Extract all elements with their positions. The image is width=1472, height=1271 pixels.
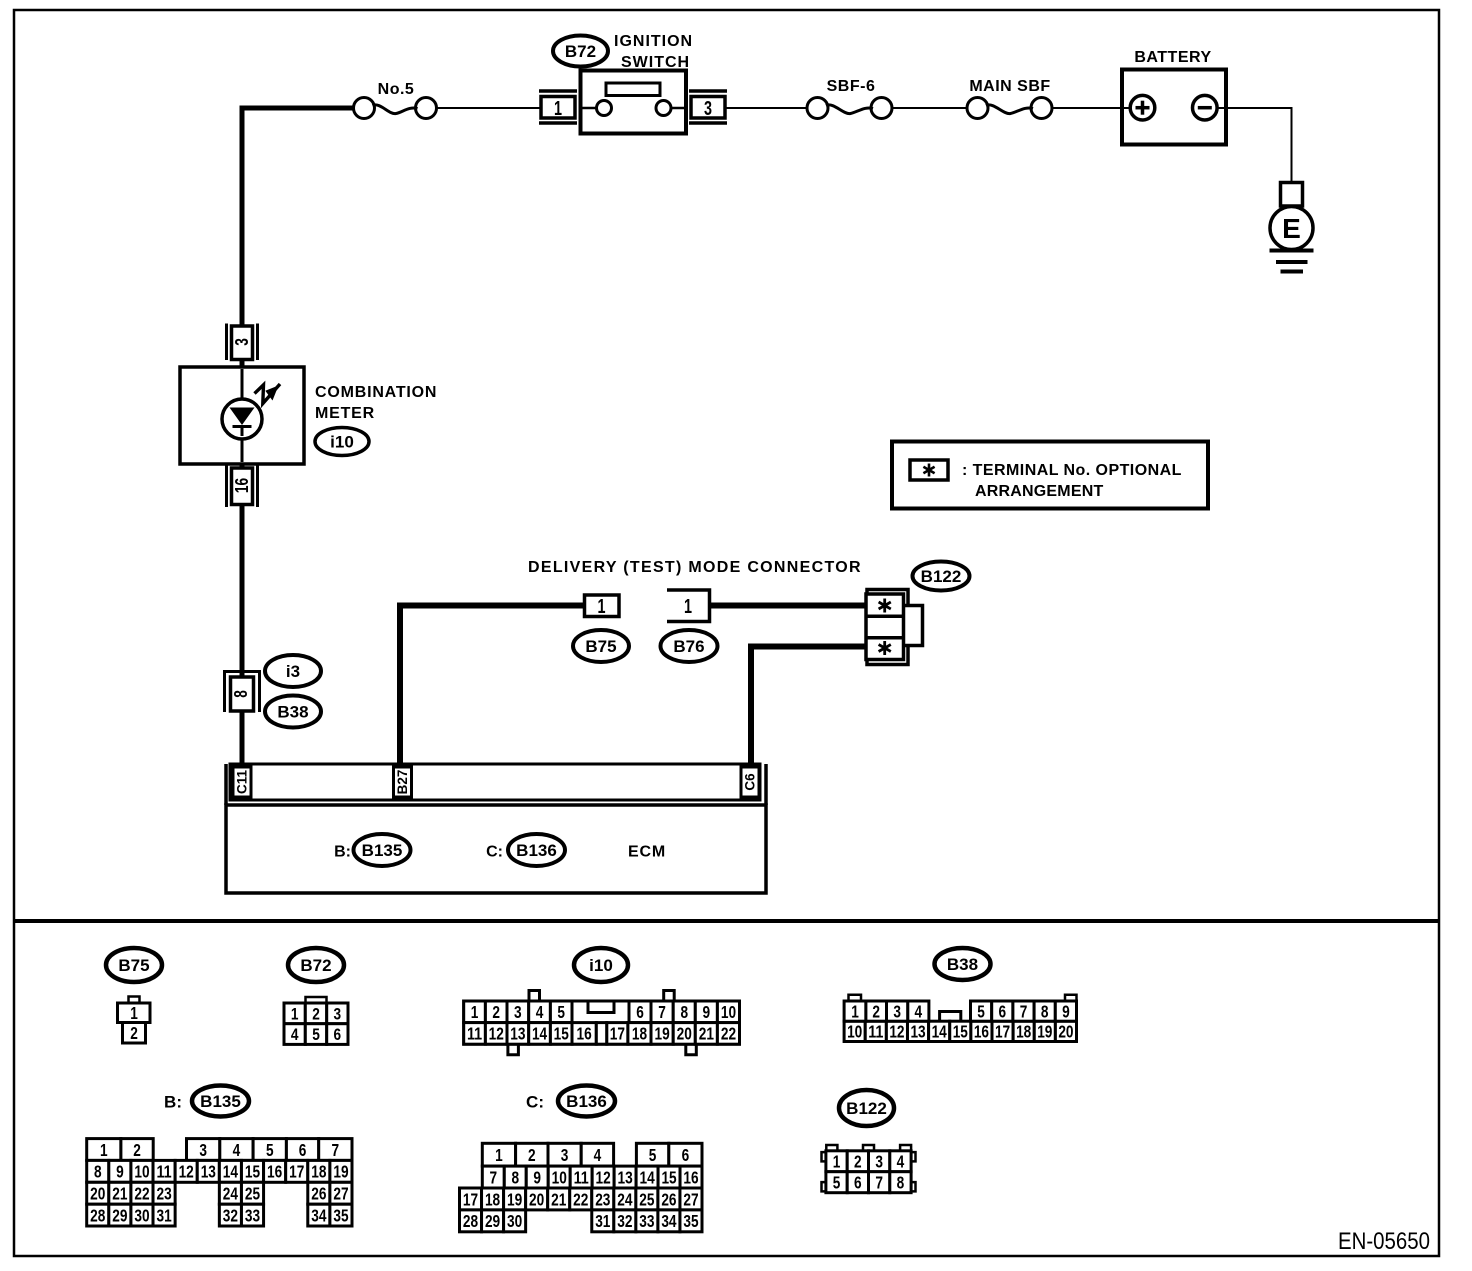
svg-text:9: 9 bbox=[1062, 1001, 1070, 1021]
svg-text:B72: B72 bbox=[300, 956, 331, 975]
svg-text:33: 33 bbox=[245, 1205, 260, 1225]
oval label B76 (schematic) bbox=[661, 630, 718, 662]
svg-text:1: 1 bbox=[100, 1140, 108, 1160]
svg-text:14: 14 bbox=[532, 1024, 547, 1044]
svg-text:12: 12 bbox=[596, 1167, 611, 1187]
svg-text:11: 11 bbox=[574, 1167, 589, 1187]
svg-text:7: 7 bbox=[658, 1002, 666, 1022]
svg-text:13: 13 bbox=[618, 1167, 633, 1187]
svg-text:13: 13 bbox=[201, 1162, 216, 1182]
svg-text:1: 1 bbox=[291, 1004, 299, 1023]
svg-text:31: 31 bbox=[156, 1205, 171, 1225]
svg-text:8: 8 bbox=[680, 1002, 688, 1022]
svg-text:i3: i3 bbox=[286, 662, 300, 681]
svg-text:20: 20 bbox=[529, 1189, 544, 1209]
svg-text:17: 17 bbox=[463, 1189, 478, 1209]
svg-text:1: 1 bbox=[833, 1152, 841, 1172]
ECM terminal C11 bbox=[233, 767, 251, 797]
svg-text:B:: B: bbox=[334, 844, 351, 861]
connector terminal 3 (combination meter i10) bbox=[227, 324, 258, 361]
svg-text:12: 12 bbox=[889, 1022, 904, 1042]
combination meter box bbox=[180, 367, 304, 464]
svg-text:B75: B75 bbox=[118, 956, 149, 975]
svg-text:16: 16 bbox=[577, 1024, 592, 1044]
svg-text:23: 23 bbox=[595, 1189, 610, 1209]
svg-text:16: 16 bbox=[267, 1162, 282, 1182]
connector terminal 1 (ignition switch, B72) bbox=[539, 91, 577, 123]
svg-text:2: 2 bbox=[528, 1145, 536, 1165]
svg-text:7: 7 bbox=[332, 1140, 340, 1160]
label DELIVERY (TEST) MODE CONNECTOR bbox=[528, 559, 862, 576]
svg-text:3: 3 bbox=[875, 1152, 883, 1172]
svg-text:2: 2 bbox=[312, 1004, 320, 1023]
svg-text:3: 3 bbox=[334, 1004, 342, 1023]
svg-text:B27: B27 bbox=[395, 770, 410, 795]
svg-text:4: 4 bbox=[536, 1002, 544, 1022]
svg-text:1: 1 bbox=[684, 596, 692, 618]
label C: with oval B136 (ECM) bbox=[486, 834, 565, 866]
svg-text:20: 20 bbox=[90, 1184, 105, 1204]
svg-text:16: 16 bbox=[683, 1167, 698, 1187]
svg-text:32: 32 bbox=[223, 1205, 238, 1225]
svg-text:18: 18 bbox=[311, 1162, 326, 1182]
svg-text:28: 28 bbox=[90, 1205, 105, 1225]
svg-text:17: 17 bbox=[995, 1022, 1010, 1042]
label COMBINATION METER bbox=[315, 384, 437, 422]
legend: terminal no. optional arrangement bbox=[892, 442, 1208, 509]
svg-text:MAIN SBF: MAIN SBF bbox=[969, 78, 1050, 95]
svg-text:6: 6 bbox=[999, 1001, 1007, 1021]
oval label B75 (pinout) bbox=[106, 948, 162, 982]
svg-text:23: 23 bbox=[156, 1184, 171, 1204]
svg-text:34: 34 bbox=[311, 1205, 326, 1225]
svg-text:1: 1 bbox=[130, 1003, 138, 1023]
ECM terminal C6 bbox=[741, 767, 759, 797]
svg-text:B38: B38 bbox=[277, 702, 308, 721]
svg-text:25: 25 bbox=[639, 1189, 654, 1209]
svg-text:2: 2 bbox=[872, 1001, 880, 1021]
svg-text:33: 33 bbox=[639, 1211, 654, 1231]
svg-text:8: 8 bbox=[94, 1162, 102, 1182]
svg-text:4: 4 bbox=[594, 1145, 602, 1165]
wire: connector B76 to delivery connector B122 pin * bbox=[710, 603, 867, 609]
svg-text:18: 18 bbox=[485, 1189, 500, 1209]
wire: fuse No.5 to ignition switch terminal 1 bbox=[437, 107, 541, 109]
connector terminal 3 (ignition switch, B72) bbox=[689, 91, 727, 123]
svg-text:20: 20 bbox=[677, 1024, 692, 1044]
svg-text:B135: B135 bbox=[362, 841, 403, 860]
label IGNITION SWITCH bbox=[614, 33, 693, 71]
connector B75 pinout (pins 1,2) bbox=[118, 997, 151, 1044]
svg-text:2: 2 bbox=[133, 1140, 141, 1160]
connector B122 pinout (pins 1-8) bbox=[822, 1145, 916, 1193]
svg-text:7: 7 bbox=[875, 1173, 883, 1193]
svg-text:6: 6 bbox=[334, 1025, 342, 1044]
svg-text:BATTERY: BATTERY bbox=[1134, 49, 1211, 66]
svg-text:11: 11 bbox=[868, 1022, 883, 1042]
svg-text:16: 16 bbox=[232, 478, 252, 493]
ground E bbox=[1270, 183, 1314, 272]
svg-text:35: 35 bbox=[683, 1211, 698, 1231]
svg-text:5: 5 bbox=[833, 1173, 841, 1193]
svg-text:17: 17 bbox=[610, 1024, 625, 1044]
wire: MAIN SBF to battery positive bbox=[1052, 107, 1131, 109]
svg-text:7: 7 bbox=[489, 1167, 497, 1187]
svg-text:5: 5 bbox=[266, 1140, 274, 1160]
svg-text:E: E bbox=[1282, 213, 1301, 244]
wire: delivery connector B122 lower * down to ECM C6 bbox=[751, 647, 867, 766]
oval label B72 (schematic) bbox=[553, 36, 608, 67]
svg-text:11: 11 bbox=[156, 1162, 171, 1182]
svg-text:IGNITION: IGNITION bbox=[614, 33, 693, 50]
pin * (upper) of B122 bbox=[879, 599, 891, 613]
svg-text:5: 5 bbox=[557, 1002, 565, 1022]
svg-text:4: 4 bbox=[233, 1140, 241, 1160]
svg-text:C:: C: bbox=[526, 1093, 544, 1112]
svg-text:29: 29 bbox=[485, 1211, 500, 1231]
connector B135 pinout (pins 1-35) bbox=[87, 1139, 352, 1226]
svg-text:6: 6 bbox=[299, 1140, 307, 1160]
svg-text:1: 1 bbox=[471, 1002, 479, 1022]
ECM terminal B27 bbox=[394, 767, 412, 797]
svg-text:24: 24 bbox=[223, 1184, 238, 1204]
connector terminal 16 (combination meter i10) bbox=[227, 465, 258, 507]
svg-text:B76: B76 bbox=[673, 637, 704, 656]
svg-text:27: 27 bbox=[683, 1189, 698, 1209]
svg-text:12: 12 bbox=[179, 1162, 194, 1182]
svg-text:28: 28 bbox=[463, 1211, 478, 1231]
svg-text:5: 5 bbox=[649, 1145, 657, 1165]
svg-text:19: 19 bbox=[1037, 1022, 1052, 1042]
svg-text:3: 3 bbox=[232, 338, 252, 346]
svg-text:ARRANGEMENT: ARRANGEMENT bbox=[975, 483, 1103, 500]
svg-text:12: 12 bbox=[489, 1024, 504, 1044]
svg-text:19: 19 bbox=[333, 1162, 348, 1182]
ECM terminal strip bbox=[230, 764, 760, 800]
svg-text:30: 30 bbox=[134, 1205, 149, 1225]
svg-text:25: 25 bbox=[245, 1184, 260, 1204]
battery bbox=[1120, 49, 1228, 145]
svg-text:7: 7 bbox=[1020, 1001, 1028, 1021]
svg-text:9: 9 bbox=[533, 1167, 541, 1187]
svg-text:10: 10 bbox=[847, 1022, 862, 1042]
svg-text:32: 32 bbox=[617, 1211, 632, 1231]
oval label i10 (pinout) bbox=[574, 948, 628, 982]
connector B75 terminal 1 bbox=[585, 595, 620, 618]
svg-text:15: 15 bbox=[661, 1167, 676, 1187]
indicator lamp (LED) inside combination meter bbox=[222, 399, 262, 439]
svg-text:ECM: ECM bbox=[628, 844, 666, 861]
svg-text:4: 4 bbox=[291, 1025, 299, 1044]
connector B136 pinout (pins 1-35) bbox=[460, 1143, 703, 1232]
figure number EN-05650 bbox=[1338, 1228, 1430, 1255]
ignition switch B72 bbox=[581, 71, 687, 134]
svg-text:B122: B122 bbox=[846, 1099, 887, 1118]
svg-text:22: 22 bbox=[721, 1024, 736, 1044]
svg-text:15: 15 bbox=[554, 1024, 569, 1044]
svg-text:19: 19 bbox=[655, 1024, 670, 1044]
svg-text:DELIVERY (TEST) MODE CONNECTOR: DELIVERY (TEST) MODE CONNECTOR bbox=[528, 559, 862, 576]
svg-text:2: 2 bbox=[130, 1023, 138, 1043]
svg-text:SBF-6: SBF-6 bbox=[827, 78, 876, 95]
svg-text:B72: B72 bbox=[565, 42, 596, 61]
wire: ECM B27 up and right to connector B75 bbox=[400, 606, 584, 766]
oval label B75 (schematic) bbox=[573, 630, 629, 662]
svg-text:9: 9 bbox=[703, 1002, 711, 1022]
svg-text:1: 1 bbox=[851, 1001, 859, 1021]
divider line between schematic and connector views bbox=[13, 919, 1440, 923]
svg-text:1: 1 bbox=[495, 1145, 503, 1165]
svg-text:26: 26 bbox=[661, 1189, 676, 1209]
svg-text:10: 10 bbox=[721, 1002, 736, 1022]
svg-text:11: 11 bbox=[467, 1024, 482, 1044]
light emission arrow of lamp bbox=[255, 384, 281, 404]
svg-text:5: 5 bbox=[312, 1025, 320, 1044]
connector terminal 8 (i3 / B38) bbox=[223, 670, 261, 712]
svg-text:20: 20 bbox=[1058, 1022, 1073, 1042]
svg-text:4: 4 bbox=[897, 1152, 905, 1172]
label B: with oval B135 (ECM) bbox=[334, 834, 410, 866]
oval label B72 (pinout) bbox=[288, 948, 344, 982]
svg-text:6: 6 bbox=[682, 1145, 690, 1165]
svg-text:C6: C6 bbox=[743, 773, 758, 791]
svg-text:29: 29 bbox=[112, 1205, 127, 1225]
wire: battery negative to ground E bbox=[1217, 108, 1292, 183]
svg-text:18: 18 bbox=[632, 1024, 647, 1044]
svg-text:17: 17 bbox=[289, 1162, 304, 1182]
svg-text:27: 27 bbox=[333, 1184, 348, 1204]
svg-text:10: 10 bbox=[134, 1162, 149, 1182]
svg-text:34: 34 bbox=[661, 1211, 676, 1231]
svg-text:14: 14 bbox=[932, 1022, 947, 1042]
svg-text:19: 19 bbox=[507, 1189, 522, 1209]
svg-text:3: 3 bbox=[561, 1145, 569, 1165]
svg-text:21: 21 bbox=[112, 1184, 127, 1204]
svg-text:i10: i10 bbox=[589, 956, 613, 975]
svg-text:8: 8 bbox=[231, 690, 251, 698]
oval label i3 bbox=[265, 655, 321, 687]
connector i10 pinout (pins 1-22) bbox=[464, 991, 740, 1055]
svg-text:14: 14 bbox=[223, 1162, 238, 1182]
svg-text:: TERMINAL No. OPTIONAL: : TERMINAL No. OPTIONAL bbox=[962, 462, 1182, 479]
svg-text:COMBINATION: COMBINATION bbox=[315, 384, 437, 401]
pin * (lower) of B122 bbox=[879, 641, 891, 655]
svg-text:9: 9 bbox=[116, 1162, 124, 1182]
svg-text:C:: C: bbox=[486, 844, 503, 861]
svg-text:1: 1 bbox=[554, 98, 562, 120]
svg-text:30: 30 bbox=[507, 1211, 522, 1231]
svg-text:3: 3 bbox=[199, 1140, 207, 1160]
svg-text:13: 13 bbox=[510, 1024, 525, 1044]
svg-text:21: 21 bbox=[699, 1024, 714, 1044]
svg-text:3: 3 bbox=[514, 1002, 522, 1022]
svg-text:15: 15 bbox=[953, 1022, 968, 1042]
fuse No.5 bbox=[354, 81, 437, 119]
connector B76 terminal 1 bbox=[667, 590, 710, 622]
oval label B122 (schematic) bbox=[913, 562, 970, 591]
svg-text:21: 21 bbox=[551, 1189, 566, 1209]
svg-text:EN-05650: EN-05650 bbox=[1338, 1228, 1430, 1255]
svg-text:10: 10 bbox=[552, 1167, 567, 1187]
label C: with oval B136 (pinout) bbox=[526, 1086, 615, 1117]
svg-text:3: 3 bbox=[893, 1001, 901, 1021]
delivery (test) mode connector B122 body bbox=[866, 590, 923, 665]
svg-text:5: 5 bbox=[977, 1001, 985, 1021]
svg-text:15: 15 bbox=[245, 1162, 260, 1182]
svg-text:B:: B: bbox=[164, 1093, 182, 1112]
svg-text:C11: C11 bbox=[235, 770, 250, 795]
svg-text:13: 13 bbox=[910, 1022, 925, 1042]
svg-text:22: 22 bbox=[134, 1184, 149, 1204]
svg-text:14: 14 bbox=[639, 1167, 654, 1187]
svg-text:31: 31 bbox=[595, 1211, 610, 1231]
svg-text:i10: i10 bbox=[330, 432, 354, 451]
svg-text:16: 16 bbox=[974, 1022, 989, 1042]
oval label B38 (pinout) bbox=[935, 948, 991, 980]
svg-text:35: 35 bbox=[333, 1205, 348, 1225]
svg-text:18: 18 bbox=[1016, 1022, 1031, 1042]
svg-text:No.5: No.5 bbox=[378, 81, 415, 98]
svg-text:B136: B136 bbox=[566, 1092, 607, 1111]
svg-text:2: 2 bbox=[854, 1152, 862, 1172]
label ECM bbox=[628, 844, 666, 861]
label B: with oval B135 (pinout) bbox=[164, 1086, 249, 1117]
svg-text:8: 8 bbox=[1041, 1001, 1049, 1021]
oval label B38 (schematic) bbox=[265, 696, 321, 728]
oval label i10 (schematic) bbox=[315, 428, 369, 456]
svg-text:26: 26 bbox=[311, 1184, 326, 1204]
connector B38 pinout (pins 1-20) bbox=[844, 995, 1076, 1042]
svg-text:B136: B136 bbox=[516, 841, 557, 860]
fuse SBF-6 bbox=[807, 78, 892, 119]
svg-text:3: 3 bbox=[704, 98, 712, 120]
svg-text:8: 8 bbox=[511, 1167, 519, 1187]
wire: ignition switch terminal 3 to fuse SBF-6 bbox=[726, 107, 807, 109]
svg-text:6: 6 bbox=[636, 1002, 644, 1022]
svg-text:8: 8 bbox=[897, 1173, 905, 1193]
svg-text:B122: B122 bbox=[921, 567, 962, 586]
wire: battery feed from junction to fuse No.5 bbox=[240, 106, 354, 111]
svg-text:4: 4 bbox=[915, 1001, 923, 1021]
svg-text:B135: B135 bbox=[200, 1092, 241, 1111]
oval label B122 (pinout) bbox=[839, 1090, 894, 1126]
svg-text:22: 22 bbox=[573, 1189, 588, 1209]
svg-text:B75: B75 bbox=[585, 637, 616, 656]
svg-text:B38: B38 bbox=[947, 955, 978, 974]
svg-text:6: 6 bbox=[854, 1173, 862, 1193]
svg-text:2: 2 bbox=[492, 1002, 500, 1022]
svg-text:METER: METER bbox=[315, 405, 375, 422]
ECM box bbox=[226, 764, 766, 893]
svg-text:24: 24 bbox=[617, 1189, 632, 1209]
fuse MAIN SBF bbox=[967, 78, 1052, 119]
svg-text:1: 1 bbox=[598, 596, 606, 618]
wire: vertical trunk from junction down through combination meter to ECM C11 bbox=[240, 106, 245, 766]
svg-text:SWITCH: SWITCH bbox=[621, 54, 690, 71]
wire: SBF-6 to MAIN SBF bbox=[892, 107, 967, 109]
connector B72 pinout (pins 1-6) bbox=[284, 997, 348, 1044]
